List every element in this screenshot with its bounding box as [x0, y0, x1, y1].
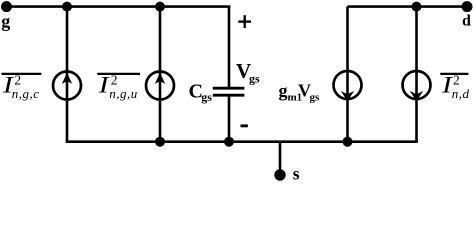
junction dot branch1 top [62, 2, 72, 12]
svg-text:gs: gs [249, 72, 260, 86]
node g terminal dot [1, 1, 12, 12]
label plus sign [238, 20, 251, 22]
arrowhead up I n,g,c [62, 73, 72, 84]
node s terminal dot [274, 169, 285, 180]
junction dot branch2 top [155, 2, 165, 12]
svg-text:g: g [1, 11, 10, 31]
arrowhead down g_m1 V_gs [341, 91, 354, 101]
junction dot branch3 bottom [343, 137, 353, 147]
svg-text:g: g [279, 81, 288, 101]
branch1 shaft through circle [66, 71, 69, 101]
wire top-right horizontal to d [348, 5, 468, 8]
arrowhead up I n,g,u [155, 73, 165, 84]
wire capacitor branch lower lead [228, 95, 231, 141]
branch4 shaft through circle [415, 70, 418, 100]
svg-text:n,g,u: n,g,u [109, 86, 138, 101]
wire branch 3 vertical [346, 7, 349, 142]
current source I n,g,u circle [146, 72, 174, 100]
wire top-left horizontal g to capacitor corner [7, 5, 231, 8]
junction dot branch4 top [412, 2, 422, 12]
label overline I2 n,g,c [2, 73, 42, 75]
junction dot capacitor bottom [224, 137, 234, 147]
svg-text:n,d: n,d [452, 86, 470, 101]
svg-text:s: s [293, 164, 300, 183]
branch3 shaft through circle [346, 70, 349, 100]
controlled source g_m1 V_gs circle [334, 71, 362, 99]
current source I n,d circle [403, 71, 431, 99]
svg-text:d: d [462, 13, 471, 30]
svg-text:gs: gs [310, 92, 321, 104]
capacitor C_gs plates [213, 87, 245, 90]
arrowhead down I n,d [410, 91, 423, 101]
wire bottom horizontal [66, 140, 418, 143]
node d terminal dot [462, 1, 473, 12]
svg-text:I: I [98, 72, 110, 98]
wire capacitor branch upper lead [228, 7, 231, 88]
wire source stub [279, 142, 282, 175]
svg-text:n,g,c: n,g,c [12, 86, 40, 101]
wire branch 4 vertical [415, 7, 418, 142]
wire branch 2 vertical [159, 7, 162, 142]
junction dot branch2 bottom [155, 137, 165, 147]
label minus sign [241, 124, 248, 127]
branch2 shaft through circle [159, 71, 162, 101]
svg-text:gs: gs [201, 90, 212, 104]
label overline I2 n,g,u [97, 73, 140, 75]
label overline I2 n,d [440, 73, 468, 75]
current source I n,g,c circle [53, 72, 81, 100]
wire branch 1 vertical [66, 7, 69, 142]
